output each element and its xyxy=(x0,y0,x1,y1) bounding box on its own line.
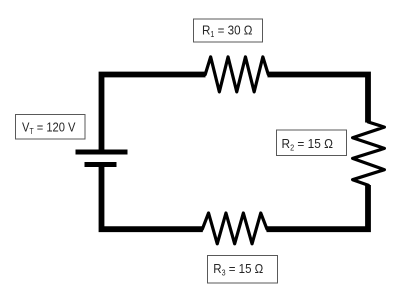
value label box VT = 120 V xyxy=(16,115,86,140)
value label box R3 = 15 ohm xyxy=(208,256,278,284)
wire bottom-right corner (right vertical lower + bottom horizontal right) xyxy=(267,185,369,229)
wire top-left corner (left vertical upper + top horizontal left) xyxy=(102,75,206,153)
svg-text:R1 = 30 Ω: R1 = 30 Ω xyxy=(202,23,253,40)
resistor R3 zigzag (bottom) xyxy=(202,213,267,244)
svg-text:R3 = 15 Ω: R3 = 15 Ω xyxy=(213,261,263,278)
battery VT (voltage source) long positive plate xyxy=(76,150,128,155)
resistor R2 zigzag (right, vertical) xyxy=(353,122,385,185)
value label box R1 = 30 ohm xyxy=(194,19,263,42)
value label box R2 = 15 ohm xyxy=(277,130,347,156)
wire bottom-left corner (bottom horizontal left + left vertical lower) xyxy=(102,165,203,230)
svg-text:R2 = 15 Ω: R2 = 15 Ω xyxy=(282,136,334,153)
wire top-right corner (top horizontal right + right vertical upper) xyxy=(268,75,369,123)
resistor R1 zigzag (top) xyxy=(205,57,268,92)
battery VT (voltage source) short negative plate xyxy=(85,162,117,167)
